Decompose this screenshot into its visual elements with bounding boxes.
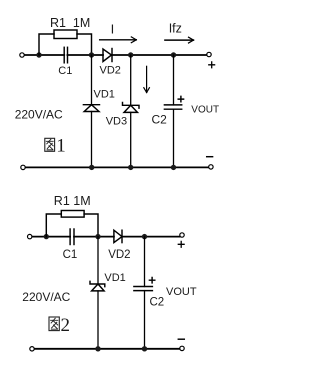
svg-text:VOUT: VOUT [166,286,197,298]
node E (bottom rail / VD1) [89,165,94,170]
diode VD1 (vertical, cathode up) [83,104,99,106]
minus mark at output [207,156,213,158]
wire: main rail from VD2 cathode to + terminal [122,236,180,238]
svg-text:VD2: VD2 [108,249,130,261]
wire: VD1 branch upper [91,55,93,105]
svg-text:C2: C2 [152,112,168,126]
label 图1 [45,138,55,151]
terminal: + output top-right [180,233,184,237]
terminal: + output top-right [207,52,211,56]
node A2 (junction R1/C1 left) [44,234,49,239]
resistor R1 [61,211,84,218]
terminal: AC input top-left [20,53,24,57]
terminal: - output bottom-right [180,346,184,350]
svg-text:R1 1M: R1 1M [50,16,90,30]
wire: C2 branch lower [173,109,175,167]
wire: C2 branch lower [144,291,146,349]
plus mark of C2 [178,96,183,101]
svg-text:C1: C1 [63,249,78,261]
wire: top rail left segment (terminal to C1) [25,54,65,56]
svg-text:C1: C1 [58,65,72,77]
label 图2 [49,317,59,331]
wire: R1 branch left riser and top [46,214,61,237]
wire: bottom rail [35,348,180,350]
wire: VD1 branch lower [97,291,99,349]
resistor R1 [54,30,77,39]
capacitor C2 (polarized) [134,286,153,288]
node E2 (bottom rail / VD1) [95,346,100,351]
node C2top (junction C2) [142,234,147,239]
svg-text:220V/AC: 220V/AC [22,290,70,304]
wire: top rail from VD2 cathode to + terminal [112,54,207,56]
node B (junction C1/R1/VD1) [89,52,94,57]
svg-text:VD1: VD1 [104,272,125,284]
svg-text:2: 2 [61,315,71,336]
wire: VD3 branch lower [130,112,132,167]
terminal: AC input bottom-left [30,347,34,351]
svg-text:VD3: VD3 [106,115,127,127]
node G (bottom rail / C2) [171,165,176,170]
plus mark at output [178,241,184,247]
node A (junction of R1/C1 left) [36,52,41,57]
zener diode VD1 (vertical, cathode up) [90,281,105,286]
node F2 (bottom rail / C2) [142,346,147,351]
node C (junction VD3 top) [128,52,133,57]
wire: top rail between C1 and VD2 [67,54,103,56]
node B2 (junction C1/R1/VD1) [95,234,100,239]
svg-text:C2: C2 [150,296,165,308]
capacitor C1 (plates) [63,47,65,63]
wire: R1 branch left riser and top [39,34,54,55]
capacitor C1 (plates) [69,229,71,245]
diode VD2 (horizontal) [114,230,122,242]
diode VD2 (horizontal) [103,49,112,62]
wire: bottom rail [26,166,209,168]
svg-text:220V/AC: 220V/AC [15,107,63,121]
zener diode VD3 (vertical, cathode up) [123,103,140,109]
wire: main rail left segment [32,236,70,238]
svg-text:1: 1 [56,136,66,157]
svg-text:I: I [111,21,115,36]
svg-text:Ifz: Ifz [169,22,182,36]
minus mark at output [178,338,184,340]
current arrow I [100,39,137,41]
wire: main rail between C1 and VD2 [74,236,114,238]
wire: C2 branch upper [173,55,175,105]
node F (bottom rail / VD3) [128,165,133,170]
plus mark at output [209,62,215,68]
capacitor C2 (polarized) [164,104,181,106]
svg-text:VD1: VD1 [94,89,115,101]
terminal: AC input top-left [28,234,32,238]
wire: R1 right side down to node B2 [84,214,98,237]
wire: VD1 branch upper [97,237,99,285]
wire: R1 right side down to node B [77,34,92,55]
current arrow Ifz [165,39,194,41]
svg-text:VD2: VD2 [100,65,121,77]
wire: VD1 branch lower [91,112,93,168]
terminal: - output bottom-right [209,165,213,169]
node D (junction C2 top) [171,52,176,57]
plus mark of C2 [149,278,154,283]
wire: C2 branch upper [144,237,146,287]
terminal: AC input bottom-left [21,165,25,169]
svg-text:R1 1M: R1 1M [54,194,91,208]
current arrow down (through VD3) [146,66,148,92]
svg-text:VOUT: VOUT [191,104,219,115]
wire: VD3 branch upper [130,55,132,105]
